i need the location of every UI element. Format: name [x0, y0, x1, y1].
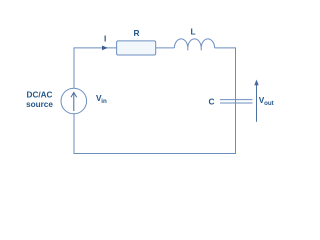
svg-text:in: in	[101, 98, 107, 105]
svg-text:R: R	[134, 28, 140, 38]
svg-text:out: out	[264, 100, 274, 107]
svg-text:DC/AC: DC/AC	[27, 91, 53, 100]
svg-text:L: L	[190, 27, 195, 37]
svg-text:C: C	[209, 97, 215, 107]
svg-text:I: I	[104, 34, 106, 44]
svg-text:source: source	[26, 100, 53, 109]
